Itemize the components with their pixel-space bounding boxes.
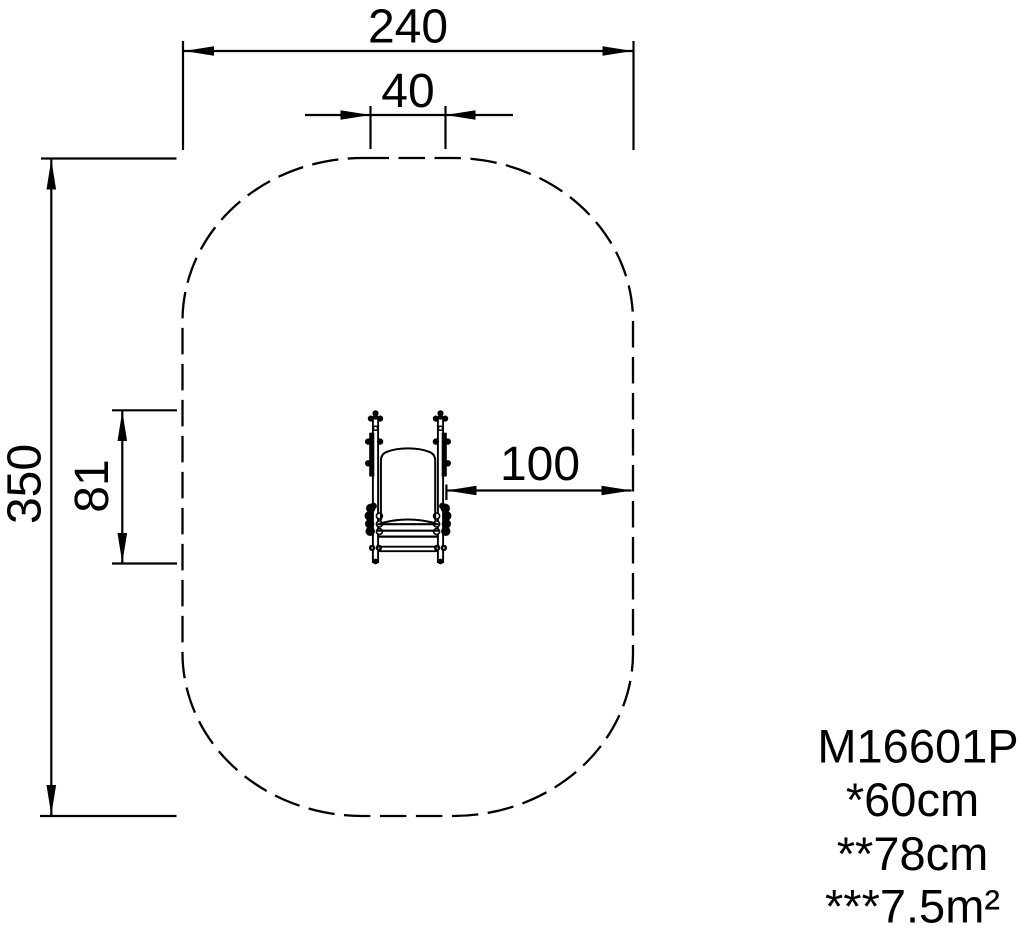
svg-text:240: 240 [368, 1, 448, 54]
svg-text:M16601P: M16601P [817, 720, 1018, 773]
svg-text:40: 40 [381, 65, 434, 118]
svg-text:350: 350 [0, 444, 52, 524]
svg-text:100: 100 [500, 438, 580, 491]
svg-text:*60cm: *60cm [846, 773, 979, 826]
svg-text:**78cm: **78cm [837, 827, 989, 880]
svg-text:81: 81 [66, 459, 119, 512]
svg-text:***7.5m²: ***7.5m² [825, 880, 1000, 933]
